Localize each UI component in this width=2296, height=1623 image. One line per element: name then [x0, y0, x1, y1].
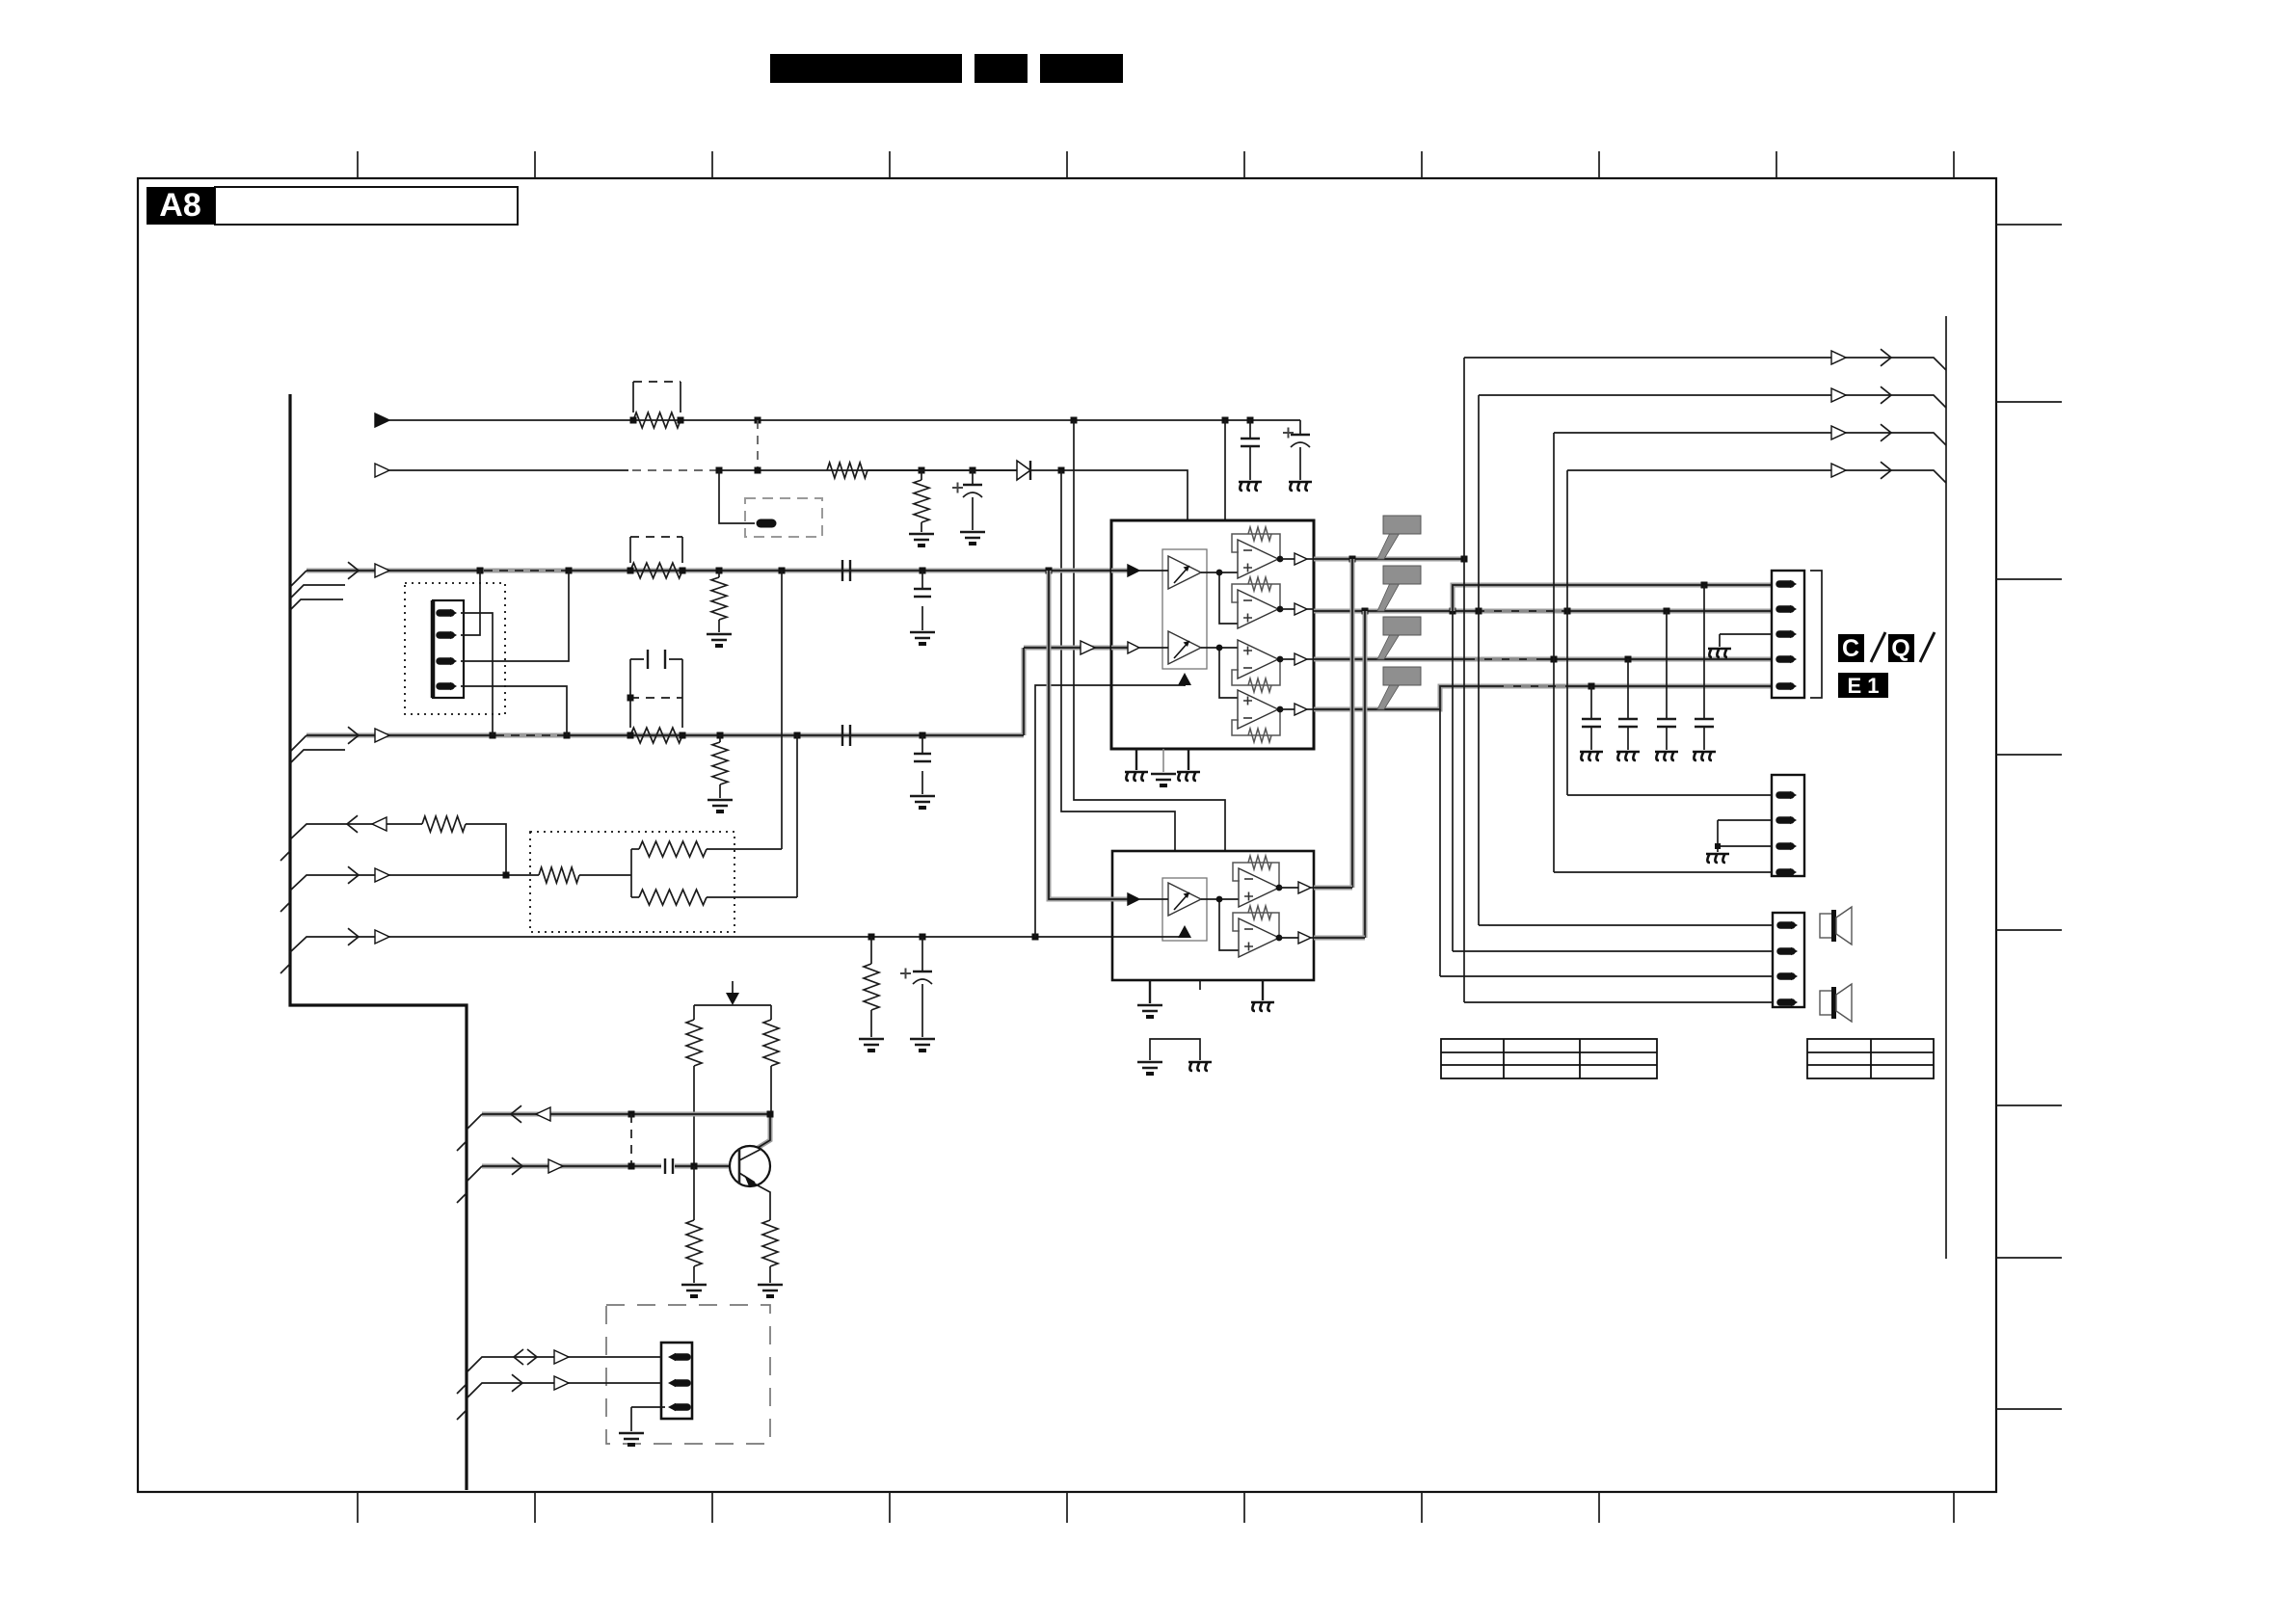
chassis ground [1125, 772, 1148, 781]
junction [564, 732, 571, 739]
control riser to U1 [1035, 685, 1185, 937]
junction [1589, 683, 1595, 690]
base wire [482, 1164, 661, 1169]
table 2 [1807, 1039, 1934, 1078]
pin [676, 1353, 687, 1361]
resistor R1 with dashed link box [633, 412, 681, 428]
junction [1222, 417, 1229, 424]
wire volume control [290, 937, 1112, 952]
junction [627, 732, 634, 739]
speaker LS1 [1820, 907, 1852, 945]
ground tie bracket [1150, 1039, 1200, 1060]
junction [1450, 608, 1456, 615]
output row 1 (op1) [1314, 557, 1464, 562]
junction [717, 732, 724, 739]
ground [960, 532, 985, 538]
junction [794, 732, 801, 739]
wire loop out y=410 [1479, 395, 1946, 408]
op-amp U1b [1238, 590, 1278, 628]
connector CN2 (4 pin) [1772, 775, 1804, 876]
wire aux in [290, 875, 539, 891]
junction [691, 1163, 698, 1170]
pin [440, 682, 451, 690]
op-amp/VCA IC U1 [1111, 520, 1314, 749]
junction [1664, 608, 1670, 615]
ground [859, 1039, 884, 1045]
ground [707, 800, 733, 806]
page border frame [138, 178, 1996, 1492]
output row 2 (op2) to CN pin2 [1314, 609, 1772, 614]
feed wire L to U2 [1049, 571, 1126, 899]
loop risers [1439, 709, 1441, 976]
connector (input, dotted outline) [405, 583, 505, 714]
collector wire (to bus) [482, 1114, 770, 1148]
dashed tie [630, 1114, 632, 1166]
connector (bottom, dashed outline) [606, 1305, 770, 1444]
signal flag 4 [1377, 667, 1421, 709]
wire loop out y=449 [1554, 433, 1946, 445]
svg-text:Q: Q [1891, 635, 1909, 662]
junction [868, 934, 875, 941]
pin [676, 1379, 687, 1387]
risers to L / R rails [781, 571, 783, 849]
U1 ground pins [1135, 749, 1137, 770]
resistor RR series + cap bypass [630, 728, 682, 743]
vertical collector bus line (right) [1945, 316, 1947, 1259]
wire feed to U2 pin 2 (stepped) [1074, 420, 1225, 851]
series capacitor CR [842, 725, 850, 746]
junction [920, 568, 926, 574]
junction [503, 872, 510, 879]
junction [490, 732, 496, 739]
junction [716, 467, 723, 474]
pin [440, 609, 451, 617]
svg-text:E 1: E 1 [1847, 674, 1879, 698]
junction [680, 568, 686, 574]
ground pin3 [1720, 633, 1772, 635]
junction [970, 467, 976, 474]
chassis ground [1580, 752, 1603, 760]
op-amp/VCA IC U2 [1112, 851, 1314, 980]
junction [1715, 843, 1721, 849]
control line into U1 [1111, 685, 1185, 686]
board code labels [1838, 634, 1864, 662]
U1 input arrows [1111, 569, 1128, 573]
wire +B supply (top) [375, 413, 389, 427]
op-amp U1d [1238, 690, 1278, 729]
junction [628, 1163, 635, 1170]
op-amp U2a [1239, 868, 1279, 907]
junction [1071, 417, 1078, 424]
resistor RL series + dashed link [630, 563, 682, 578]
riser verticals [1350, 559, 1355, 888]
resistor base to ground [693, 1166, 695, 1220]
wires to bottom connector [467, 1357, 661, 1372]
signal flag 1 [1377, 516, 1421, 559]
series capacitor CL [842, 560, 850, 581]
chassis ground [1177, 772, 1200, 781]
connector CN1 (5 pin) [1772, 571, 1804, 698]
pin [676, 1403, 687, 1411]
chassis ground [1239, 482, 1262, 491]
signal flag 2 [1377, 566, 1421, 611]
op-amp U1a [1238, 540, 1278, 578]
ground [619, 1433, 644, 1439]
svg-text:A8: A8 [159, 187, 200, 224]
junction [678, 417, 684, 424]
junction [566, 568, 573, 574]
pin [1780, 998, 1792, 1006]
supply arrow into bias network [732, 981, 734, 993]
capacitor C elco (decoupling) [1299, 420, 1301, 435]
junction [1046, 568, 1053, 574]
pin [1779, 630, 1791, 638]
ground [1137, 1005, 1162, 1011]
capacitor C (decoupling) [1249, 420, 1251, 439]
wire U1 top pin [1224, 420, 1226, 520]
speaker LS2 [1820, 984, 1852, 1022]
pin [1779, 655, 1791, 663]
table 1 [1441, 1039, 1657, 1078]
junction [1551, 656, 1558, 663]
output row 3 (op3) to CN pin4 [1314, 657, 1772, 662]
junction [755, 417, 761, 424]
pin [1779, 868, 1791, 876]
sheet label A8 [215, 187, 518, 225]
junction [1058, 467, 1065, 474]
pin [1779, 580, 1791, 588]
ground [910, 632, 935, 638]
junction [477, 568, 484, 574]
border tick marks [357, 151, 359, 178]
pin [1780, 972, 1792, 980]
control line into U2 [1112, 936, 1185, 938]
chassis ground [1693, 752, 1716, 760]
ground [758, 1285, 783, 1290]
junction [1476, 608, 1482, 615]
junction [1349, 556, 1356, 563]
chassis ground [1188, 1062, 1212, 1071]
junction [1247, 417, 1254, 424]
resistor bias upper right [770, 1005, 772, 1020]
svg-text:C: C [1842, 635, 1859, 662]
junction [1362, 608, 1369, 615]
junction [767, 1111, 774, 1118]
resistor R2 [827, 463, 868, 478]
chassis ground [1251, 1002, 1274, 1011]
connector CN3 (speakers) [1773, 913, 1804, 1007]
junction [630, 417, 637, 424]
junction [1461, 556, 1468, 563]
diode D1 [868, 469, 1017, 471]
junction [1625, 656, 1632, 663]
chassis ground [1706, 854, 1729, 863]
junction [628, 1111, 635, 1118]
pin [1779, 605, 1791, 613]
junction [1564, 608, 1571, 615]
pin [1779, 682, 1791, 690]
wire loop out y=488 [1567, 470, 1946, 483]
audio input R wire (shielded) [290, 648, 1126, 763]
junction [680, 732, 686, 739]
U2 ground pins [1149, 980, 1151, 1003]
ground [909, 534, 934, 540]
op-amp U2b [1239, 918, 1279, 957]
decoupling caps under CN1 [1590, 686, 1592, 719]
pin wires [461, 613, 493, 735]
transistor Q1 [730, 1146, 770, 1186]
ground [707, 634, 732, 640]
wire aux out (left arrow) [290, 824, 422, 839]
link to service plug (dashed box) [719, 470, 755, 523]
junction [779, 568, 786, 574]
ground [681, 1285, 707, 1290]
jog to CN pin1 row [1453, 585, 1772, 611]
junction [919, 467, 925, 474]
output row 4 (op4) + jog to CN pin5 row [1314, 686, 1772, 709]
resistor bias upper left [693, 1005, 695, 1020]
wire feed to U2 pin (stepped) [1061, 470, 1175, 851]
pin [1779, 791, 1791, 799]
wire loop out y=371 [1464, 358, 1946, 370]
junction [920, 934, 926, 941]
pin [1780, 947, 1792, 955]
wire switched supply (diode rail) [375, 464, 389, 477]
ground [1137, 1062, 1162, 1068]
junction [627, 695, 634, 702]
pin [440, 657, 451, 665]
chassis ground [1616, 752, 1640, 760]
chassis ground [1289, 482, 1312, 491]
pin3 ground [631, 1406, 665, 1408]
pin [1779, 816, 1791, 824]
audio input L wire (shielded) [290, 562, 1126, 610]
op-amp U1c [1238, 640, 1278, 678]
ground [910, 1039, 935, 1045]
ground [1151, 774, 1176, 780]
chassis ground [1655, 752, 1678, 760]
pin [440, 631, 451, 639]
redacted title bars [770, 54, 962, 83]
junction [1032, 934, 1039, 941]
parallel resistor pair (dotted box) [530, 832, 734, 932]
pin [1780, 921, 1792, 929]
junction [755, 467, 761, 474]
left supply bus wire [290, 394, 467, 1490]
junction [627, 568, 634, 574]
signal flag 3 [1377, 617, 1421, 659]
junction [1701, 582, 1708, 589]
junction [920, 732, 926, 739]
ground [910, 796, 935, 802]
chassis ground [1708, 649, 1731, 657]
junction [716, 568, 723, 574]
resistor emitter to ground [762, 1220, 778, 1266]
pin [1779, 842, 1791, 850]
